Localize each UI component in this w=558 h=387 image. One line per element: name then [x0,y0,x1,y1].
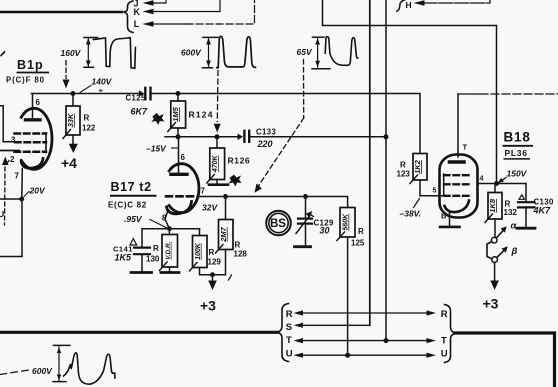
svg-text:BS: BS [270,218,286,230]
svg-text:220: 220 [257,139,273,149]
svg-text:7: 7 [15,172,20,181]
svg-text:U: U [0,209,4,219]
svg-text:6: 6 [181,153,186,162]
svg-text:1M5: 1M5 [171,106,180,121]
svg-text:C133: C133 [256,128,277,137]
svg-text:–38V.: –38V. [400,209,421,219]
svg-text:B17 t2: B17 t2 [111,180,152,194]
svg-text:160V: 160V [61,48,82,58]
svg-text:2M7: 2M7 [219,226,228,242]
svg-text:140V: 140V [92,77,113,87]
svg-text:H: H [406,0,412,10]
svg-text:122: 122 [82,124,96,133]
svg-text:8: 8 [162,214,167,223]
svg-text:R: R [84,114,90,123]
svg-text:+3: +3 [200,298,216,314]
svg-text:1K8: 1K8 [488,198,497,213]
svg-text:K: K [134,7,141,17]
svg-text:33K: 33K [66,113,75,127]
svg-text:6K7: 6K7 [131,107,149,117]
svg-text:30: 30 [320,226,330,236]
svg-text:C125: C125 [126,94,147,103]
svg-text:132: 132 [504,208,518,217]
svg-text:P(C)F 80: P(C)F 80 [6,76,45,85]
svg-text:32V: 32V [202,203,218,213]
svg-text:R: R [235,241,241,250]
svg-text:–15V: –15V [146,144,167,154]
svg-text:4: 4 [480,176,484,183]
svg-text:6: 6 [36,98,41,107]
svg-text:B1p: B1p [17,58,44,72]
svg-text:B: B [441,212,447,221]
svg-text:β: β [511,246,518,257]
svg-text:R124: R124 [189,110,214,120]
svg-text:T: T [463,143,468,152]
svg-text:1K5: 1K5 [115,253,133,263]
svg-text:3: 3 [11,136,16,145]
svg-text:R: R [358,227,364,236]
svg-text:150V: 150V [507,169,528,179]
svg-text:560K: 560K [343,213,350,231]
svg-text:T: T [441,335,447,346]
svg-text:U: U [441,348,448,359]
svg-text:65V: 65V [297,47,313,57]
svg-text:130: 130 [146,255,160,264]
svg-text:B18: B18 [504,130,531,145]
svg-text:L: L [134,19,140,29]
svg-text:R: R [209,248,215,257]
svg-text:+4: +4 [61,155,77,171]
svg-text:100K: 100K [195,242,202,260]
svg-text:.95V: .95V [124,214,143,224]
svg-text:600V: 600V [32,366,53,376]
svg-text:R: R [153,244,159,253]
svg-text:128: 128 [234,250,248,259]
svg-text:U: U [286,349,293,360]
svg-text:R126: R126 [228,156,251,166]
svg-text:PL36: PL36 [505,148,528,158]
svg-text:S: S [286,322,292,333]
svg-text:123: 123 [397,170,411,179]
svg-text:R: R [441,309,448,320]
svg-text:129: 129 [208,258,222,267]
svg-text:R: R [286,309,293,320]
svg-text:1K2: 1K2 [413,159,422,174]
svg-text:7: 7 [201,187,206,196]
svg-text:R: R [400,161,406,170]
svg-text:E(C)C 82: E(C)C 82 [108,201,147,210]
svg-text:20V: 20V [29,186,46,196]
svg-text:+3: +3 [483,296,499,312]
svg-text:470K: 470K [212,154,219,173]
svg-text:V.D.R.: V.D.R. [165,241,172,259]
svg-text:125: 125 [351,239,365,248]
svg-text:T: T [286,335,292,346]
svg-text:5: 5 [433,188,437,195]
svg-text:4K7: 4K7 [533,206,552,216]
svg-text:2: 2 [10,155,15,164]
svg-text:600V: 600V [181,48,202,58]
